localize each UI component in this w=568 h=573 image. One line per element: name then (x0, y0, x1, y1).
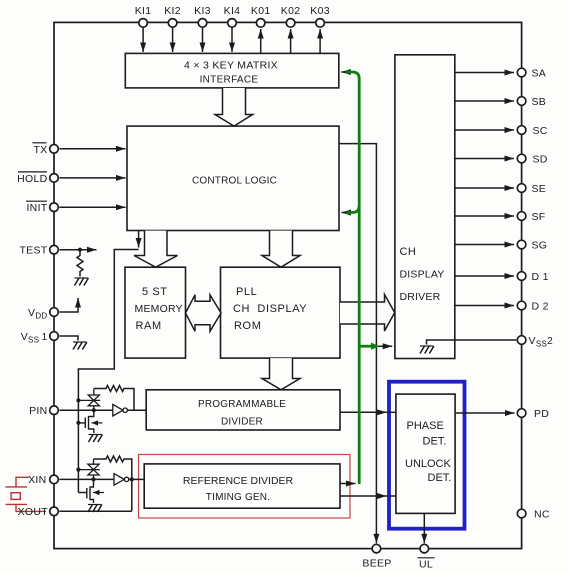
svg-text:4 × 3 KEY MATRIX: 4 × 3 KEY MATRIX (184, 60, 278, 72)
svg-text:XIN: XIN (28, 474, 46, 486)
wire phase det to UL pin (423, 513, 425, 543)
svg-text:K02: K02 (281, 5, 301, 17)
hollow arrow: ROM to programmable divider (262, 358, 300, 390)
resistor R-test pulldown (77, 250, 83, 277)
node buffer bias (XIN diode) (76, 468, 80, 472)
svg-text:SB: SB (532, 96, 547, 108)
svg-text:CH DISPLAY: CH DISPLAY (233, 303, 307, 315)
svg-text:KI3: KI3 (194, 5, 211, 17)
svg-text:INIT: INIT (26, 202, 47, 214)
wire green branch to display driver (359, 345, 371, 348)
wire green branch to control logic (347, 206, 360, 213)
svg-text:CONTROL LOGIC: CONTROL LOGIC (192, 176, 277, 187)
box: 5 ST memory RAM (125, 267, 186, 358)
pin K01 (256, 19, 265, 28)
svg-text:K03: K03 (310, 5, 330, 17)
svg-text:PLL: PLL (236, 286, 257, 298)
wire SF (455, 215, 514, 217)
wire HOLD to control logic (59, 177, 125, 179)
svg-text:TIMING GEN.: TIMING GEN. (206, 492, 270, 503)
pin KI2 (168, 19, 177, 28)
hollow double arrow: RAM to ROM (186, 295, 222, 332)
wire reference divider to phase det (340, 495, 387, 497)
svg-text:D 1: D 1 (532, 271, 549, 283)
wire KI2 down arrow (172, 27, 174, 52)
IC outer boundary (54, 22, 522, 548)
wire reference divider to green clock net (340, 483, 356, 485)
node XIN input (91, 477, 95, 481)
svg-text:MEMORY: MEMORY (135, 303, 183, 315)
wire green net to control logic arrow (342, 212, 351, 214)
box: phase det / unlock det (396, 394, 455, 513)
pin HOLD (50, 174, 59, 183)
wire green main vertical (346, 72, 360, 484)
inverter A1 (PIN buffer) (113, 404, 123, 416)
pin SA (517, 68, 526, 77)
highlight box (blue) around phase det (389, 382, 465, 529)
svg-text:NC: NC (534, 508, 550, 520)
wire TX to control logic (59, 148, 125, 150)
node buffer bias (PIN gate) (76, 421, 80, 425)
svg-text:CH: CH (400, 246, 417, 258)
hollow arrow: control logic to RAM (134, 231, 178, 268)
svg-text:XOUT: XOUT (18, 506, 49, 518)
svg-text:TX: TX (33, 144, 47, 156)
inverter A2 (XIN oscillator) (114, 474, 124, 486)
ground (TEST pulldown) (75, 278, 89, 286)
svg-text:RAM: RAM (136, 320, 162, 332)
pin D2 (517, 301, 526, 310)
wire SE (455, 187, 514, 189)
pin TEST (50, 245, 59, 254)
node buffer bias (PIN diode) (76, 398, 80, 402)
svg-text:DISPLAY: DISPLAY (400, 269, 445, 281)
wire programmable divider to phase det (340, 411, 387, 413)
svg-text:SG: SG (532, 239, 548, 251)
pin UL (420, 544, 429, 553)
pin SD (517, 154, 526, 163)
svg-text:PIN: PIN (29, 405, 47, 417)
box: CH display driver (395, 55, 455, 359)
box: PLL CH display ROM (221, 267, 341, 358)
wire INIT to control logic (59, 206, 125, 208)
crystal X1 (red, external) (6, 477, 47, 511)
wire XIN input node (59, 478, 114, 480)
wire K02 up arrow (290, 29, 292, 53)
svg-text:DET.: DET. (428, 472, 452, 484)
wire KI1 down arrow (142, 27, 144, 52)
pin K02 (286, 19, 295, 28)
pin circles (50, 19, 526, 553)
wire KI4 down arrow (231, 27, 233, 52)
wire SC (455, 129, 514, 131)
wire SA (455, 72, 514, 74)
pin XIN (50, 475, 59, 484)
pin K03 (316, 19, 325, 28)
ground (Q1 source) (89, 435, 103, 443)
svg-text:PHASE: PHASE (407, 420, 444, 432)
pin PD (517, 409, 526, 418)
svg-text:KI2: KI2 (164, 5, 181, 17)
protection diode pair (PIN) (88, 395, 99, 406)
svg-text:DET.: DET. (423, 436, 447, 448)
pin BEEP (372, 544, 381, 553)
svg-text:TEST: TEST (19, 245, 47, 257)
protection diode pair (XIN) (88, 464, 99, 475)
pin VDD (50, 308, 59, 317)
ground (Vss1) (73, 342, 87, 350)
svg-text:DRIVER: DRIVER (400, 291, 441, 303)
svg-text:REFERENCE DIVIDER: REFERENCE DIVIDER (183, 475, 294, 487)
resistor R-pin feedback (94, 386, 134, 411)
box: control logic (127, 126, 339, 230)
svg-text:D 2: D 2 (532, 300, 549, 312)
pin KI1 (139, 19, 148, 28)
wire phase det to PD pin (455, 412, 514, 414)
wire SG (455, 244, 514, 246)
wire Vss1 to ground (59, 336, 78, 341)
svg-text:BEEP: BEEP (362, 557, 391, 569)
svg-text:ROM: ROM (234, 320, 261, 332)
wire K03 up arrow (319, 29, 321, 53)
svg-text:SF: SF (532, 211, 546, 223)
wire SB (455, 100, 514, 102)
svg-text:SA: SA (532, 67, 547, 79)
pin SC (517, 126, 526, 135)
svg-text:SD: SD (533, 153, 548, 165)
svg-text:K01: K01 (251, 5, 271, 17)
ground (Q2 source) (88, 505, 102, 513)
wire control logic down-left to input buffers (138, 231, 140, 248)
wire control logic to BEEP pin (339, 144, 376, 527)
svg-text:PD: PD (534, 408, 549, 420)
wire TEST stub with arrow (59, 249, 96, 251)
highlight box (red) around reference divider (139, 455, 351, 519)
pin PIN (50, 406, 59, 415)
svg-text:UNLOCK: UNLOCK (405, 458, 452, 470)
transistor Q1 (PIN input fet) (78, 410, 93, 433)
transistor Q2 (XIN fet) (78, 479, 93, 503)
node XIN inverter output (130, 477, 134, 481)
pin SF (517, 212, 526, 221)
svg-text:DIVIDER: DIVIDER (221, 417, 263, 428)
box: 4x3 key matrix interface (125, 53, 338, 88)
ground (Vss2 internal) (420, 346, 434, 354)
wire green net to display driver arrow (359, 345, 392, 347)
svg-text:SC: SC (533, 125, 548, 137)
pin VSS2 (517, 336, 526, 345)
junction dots (76, 248, 134, 482)
hollow arrow: control logic to ROM (262, 231, 300, 268)
svg-text:UL: UL (419, 559, 433, 571)
wire inverter A2 output to reference divider (129, 478, 144, 480)
wire D2 (455, 305, 514, 307)
pin SE (517, 184, 526, 193)
wire D1 (455, 275, 514, 277)
svg-text:SE: SE (532, 183, 547, 195)
wires group (59, 27, 516, 543)
pin INIT (50, 203, 59, 212)
green arrowhead into driver (371, 343, 380, 350)
node test resistor tap (78, 248, 82, 252)
green clock net (346, 72, 372, 484)
pin VSS1 (50, 332, 59, 341)
svg-text:5 ST: 5 ST (142, 286, 168, 298)
wire Vss2 to internal ground (427, 340, 517, 345)
wire XOUT (59, 510, 131, 512)
pin D1 (517, 272, 526, 281)
resistor R-xin feedback (94, 456, 132, 511)
hollow arrow: key matrix to control logic (215, 88, 253, 126)
pin TX (50, 145, 59, 154)
wire green net to key matrix arrow (341, 71, 350, 73)
wire KI3 down arrow (202, 27, 204, 52)
node PIN input (92, 408, 96, 412)
svg-text:HOLD: HOLD (17, 173, 47, 185)
box: programmable divider (146, 390, 340, 430)
wire inverter A1 output to programmable divider (127, 409, 146, 411)
svg-text:KI4: KI4 (224, 5, 241, 17)
pin NC (517, 509, 526, 518)
pin KI3 (198, 19, 207, 28)
pin SG (517, 240, 526, 249)
pin SB (517, 97, 526, 106)
wire PIN input node (59, 409, 112, 411)
box: reference divider timing gen (144, 464, 340, 508)
svg-text:PROGRAMMABLE: PROGRAMMABLE (198, 399, 286, 410)
wire SD (455, 158, 514, 160)
pin XOUT (50, 507, 59, 516)
wire VDD up arrow (59, 298, 78, 312)
svg-text:INTERFACE: INTERFACE (200, 75, 259, 86)
svg-text:KI1: KI1 (135, 5, 152, 17)
hollow arrow: ROM to CH display driver (340, 295, 395, 332)
wire K01 up arrow (260, 29, 262, 53)
pin KI4 (228, 19, 237, 28)
